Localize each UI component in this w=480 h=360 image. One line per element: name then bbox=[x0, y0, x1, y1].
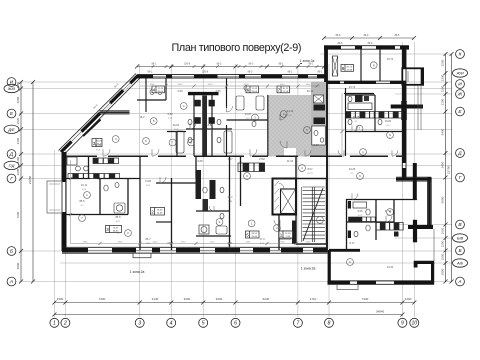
right step at A-B axis bbox=[414, 261, 418, 268]
svg-text:12.86: 12.86 bbox=[95, 143, 102, 147]
apartment flag 5 bbox=[246, 231, 260, 238]
svg-text:86-3: 86-3 bbox=[217, 62, 222, 65]
right balcony thin lines upper bbox=[420, 85, 422, 130]
svg-text:И: И bbox=[458, 82, 462, 88]
exterior wall top-right block top bbox=[324, 45, 409, 47]
svg-text:3250: 3250 bbox=[208, 84, 214, 86]
svg-text:Б: Б bbox=[458, 248, 461, 254]
svg-text:44.1: 44.1 bbox=[107, 157, 113, 161]
svg-text:З.88: З.88 bbox=[207, 123, 213, 127]
apartment flag 3 diagonal room bbox=[92, 139, 102, 147]
svg-text:5.83: 5.83 bbox=[167, 112, 173, 116]
white door gap in gray room bbox=[284, 148, 296, 157]
right lower bath wall black chunks bbox=[348, 201, 351, 209]
kitchen long row right apartment hall bbox=[346, 112, 403, 119]
svg-text:16.2: 16.2 bbox=[139, 115, 145, 119]
svg-text:А/Б: А/Б bbox=[456, 262, 464, 266]
svg-text:9.65: 9.65 bbox=[357, 209, 363, 213]
right lower tub bbox=[353, 202, 367, 208]
svg-text:Д/Е: Д/Е bbox=[7, 128, 15, 132]
svg-text:1850: 1850 bbox=[441, 268, 445, 275]
svg-text:85.5: 85.5 bbox=[79, 199, 85, 203]
bath fixtures flanking central shaft bbox=[176, 119, 232, 153]
right dimension column 1 bbox=[445, 54, 447, 282]
svg-text:2100: 2100 bbox=[441, 98, 445, 105]
svg-text:86.7: 86.7 bbox=[145, 237, 151, 241]
svg-text:74.83: 74.83 bbox=[145, 179, 152, 183]
svg-text:1250: 1250 bbox=[441, 240, 445, 247]
svg-text:З.88: З.88 bbox=[228, 201, 233, 203]
inner diagonal wall segment bbox=[83, 120, 101, 137]
vent side blocks upper left bbox=[195, 100, 201, 107]
exterior wall top of center block bbox=[137, 74, 328, 76]
right dimension column 2 bbox=[451, 54, 453, 282]
dark box in bottom-right kitchen bbox=[394, 232, 399, 237]
svg-text:7-34: 7-34 bbox=[286, 236, 291, 238]
svg-text:86-9: 86-9 bbox=[364, 34, 369, 37]
svg-text:16.81: 16.81 bbox=[385, 119, 392, 123]
interior dimension chain left wall bbox=[70, 160, 72, 243]
bottom dimension line row 2 overall bbox=[54, 314, 402, 316]
washer box lower core bbox=[199, 225, 209, 234]
svg-text:5400: 5400 bbox=[441, 128, 445, 135]
kitchen row center-bottom apartment bbox=[238, 163, 265, 172]
bottom extension top wall bbox=[329, 249, 360, 252]
svg-text:6240: 6240 bbox=[263, 297, 270, 301]
svg-text:17-19: 17-19 bbox=[282, 91, 288, 93]
svg-text:85.5: 85.5 bbox=[115, 215, 121, 219]
svg-text:Ж/И: Ж/И bbox=[455, 72, 464, 76]
svg-text:9.65: 9.65 bbox=[197, 159, 203, 163]
svg-text:36-32: 36-32 bbox=[282, 88, 288, 90]
window sills top center bbox=[153, 75, 317, 77]
gray shaded corridor room fill bbox=[268, 95, 327, 157]
svg-text:12-88: 12-88 bbox=[346, 70, 352, 72]
svg-text:11.62: 11.62 bbox=[287, 159, 294, 163]
svg-text:Б/В: Б/В bbox=[457, 237, 464, 241]
svg-text:27.59: 27.59 bbox=[385, 209, 392, 213]
bath fixtures top-left apartment bbox=[150, 85, 264, 126]
right exterior wall lower bbox=[427, 177, 429, 229]
apartment flag 2 bbox=[151, 208, 165, 216]
svg-text:Ж/И: Ж/И bbox=[7, 87, 16, 91]
svg-text:15.72: 15.72 bbox=[307, 173, 313, 175]
central vent shaft cap wall bbox=[188, 92, 219, 95]
svg-text:33-05: 33-05 bbox=[251, 91, 257, 93]
svg-text:3140: 3140 bbox=[152, 297, 159, 301]
svg-text:1500: 1500 bbox=[441, 253, 445, 260]
mid horizontal wall at Д axis bbox=[66, 155, 406, 157]
svg-text:4.07: 4.07 bbox=[227, 157, 233, 161]
svg-text:Г: Г bbox=[459, 175, 462, 181]
svg-text:10: 10 bbox=[412, 321, 418, 327]
svg-text:4: 4 bbox=[170, 321, 173, 327]
main structural wall x327 bbox=[326, 49, 328, 156]
door swing arcs bbox=[103, 106, 398, 226]
lower vent middle column bbox=[203, 199, 209, 211]
svg-text:7200: 7200 bbox=[16, 211, 20, 218]
main structural wall x327 lower bbox=[326, 156, 328, 250]
svg-text:3200: 3200 bbox=[184, 297, 191, 301]
apartment flag 8 bbox=[341, 65, 354, 72]
axis grid lines bbox=[19, 42, 452, 317]
left exterior wall bbox=[61, 152, 63, 251]
kitchen row upper-left apartment bbox=[93, 158, 119, 164]
right pier cross at E axis bbox=[391, 105, 423, 109]
svg-text:План типового поверху(2-9): План типового поверху(2-9) bbox=[172, 42, 302, 54]
svg-text:86-1: 86-1 bbox=[288, 70, 293, 73]
kitchen row bottom-right apartment bbox=[376, 223, 403, 231]
right exterior wall at Г axis bbox=[396, 176, 431, 178]
svg-text:3210: 3210 bbox=[210, 241, 216, 243]
vent side blocks lower right bbox=[209, 117, 215, 124]
bottom extension left wall bbox=[328, 250, 331, 284]
central vent shaft column bbox=[202, 96, 207, 156]
right bay window protrusion bbox=[402, 68, 423, 85]
svg-text:105-8: 105-8 bbox=[184, 62, 191, 65]
white bath box inside gray strip bbox=[312, 126, 326, 145]
bottom extension bottom wall bbox=[328, 280, 435, 282]
svg-text:86-9: 86-9 bbox=[368, 42, 373, 45]
apartment flag 1 bbox=[279, 231, 293, 238]
left dimension column 1 bbox=[20, 82, 22, 282]
svg-text:1 зона 2а: 1 зона 2а bbox=[130, 270, 145, 274]
ventilation X-box top-right block bbox=[332, 56, 337, 76]
staircase stringer bbox=[311, 187, 313, 242]
svg-text:Б: Б bbox=[10, 249, 13, 255]
apartment flag 7 bbox=[277, 86, 290, 93]
diagonal window gaps bbox=[72, 83, 131, 142]
svg-text:2.17: 2.17 bbox=[313, 143, 319, 147]
svg-text:2740: 2740 bbox=[228, 247, 234, 249]
left balcony outline bbox=[47, 181, 62, 213]
staircase treads bbox=[303, 187, 326, 239]
svg-text:14.7: 14.7 bbox=[227, 195, 233, 199]
right wall mid pier bbox=[413, 163, 417, 200]
svg-text:1200: 1200 bbox=[441, 85, 445, 92]
svg-text:3040: 3040 bbox=[153, 241, 159, 243]
svg-text:3230: 3230 bbox=[216, 297, 223, 301]
svg-text:86-3: 86-3 bbox=[248, 70, 253, 73]
stairwell walls bbox=[295, 156, 297, 244]
svg-text:74-95: 74-95 bbox=[285, 233, 291, 235]
svg-text:10.25: 10.25 bbox=[349, 167, 356, 171]
right lower vent cell row bbox=[349, 217, 376, 222]
bath fixtures lower-left apartment bbox=[104, 182, 125, 213]
axis circles left bbox=[7, 78, 16, 87]
svg-text:33-05: 33-05 bbox=[157, 91, 163, 93]
svg-text:86-1: 86-1 bbox=[148, 70, 153, 73]
right exterior wall upper bbox=[401, 46, 403, 178]
svg-text:23950: 23950 bbox=[28, 175, 32, 184]
svg-text:6: 6 bbox=[234, 321, 237, 327]
black duct below elevator bbox=[292, 221, 297, 245]
svg-text:5600: 5600 bbox=[441, 196, 445, 203]
svg-text:2: 2 bbox=[63, 321, 67, 327]
lower vent bar right bbox=[210, 180, 216, 199]
svg-text:А: А bbox=[457, 279, 461, 285]
svg-text:2980: 2980 bbox=[146, 243, 152, 245]
svg-text:3040: 3040 bbox=[150, 84, 156, 86]
svg-text:2980: 2980 bbox=[83, 241, 89, 243]
interior dimension chain below top wall bbox=[140, 85, 320, 87]
svg-text:1 зона 2а: 1 зона 2а bbox=[300, 59, 315, 63]
svg-text:2.55: 2.55 bbox=[215, 89, 221, 93]
svg-text:3360: 3360 bbox=[118, 241, 124, 243]
svg-text:7: 7 bbox=[297, 321, 300, 327]
apartment flag 4 bbox=[152, 86, 165, 93]
kitchen fixtures left bbox=[76, 166, 81, 171]
svg-text:25-72: 25-72 bbox=[346, 67, 352, 69]
top dimension line center block bbox=[137, 66, 324, 68]
svg-text:86-8: 86-8 bbox=[338, 42, 343, 45]
svg-text:17.3: 17.3 bbox=[259, 237, 265, 241]
gray darker strip right of corridor bbox=[311, 82, 327, 157]
bottom dimension line row 1 bbox=[54, 302, 414, 304]
svg-text:1300: 1300 bbox=[441, 74, 445, 81]
svg-text:Д: Д bbox=[457, 151, 462, 157]
black vent blocks in gray strip bbox=[314, 105, 326, 111]
svg-text:23-44: 23-44 bbox=[251, 236, 257, 238]
vent side blocks lower left bbox=[195, 117, 201, 124]
svg-text:Д: Д bbox=[9, 152, 14, 158]
right balcony glazing lower bbox=[433, 229, 435, 261]
left dimension column 2 bbox=[32, 82, 34, 282]
axis circles bottom bbox=[50, 318, 59, 327]
bath fixtures lower core bbox=[203, 187, 227, 234]
svg-text:20.87: 20.87 bbox=[245, 112, 252, 116]
svg-text:10.28: 10.28 bbox=[353, 115, 360, 119]
white vent box inside gray strip bbox=[314, 95, 324, 103]
svg-text:10.11: 10.11 bbox=[81, 183, 88, 187]
svg-text:2762: 2762 bbox=[259, 157, 265, 161]
top-right block left wall bbox=[324, 46, 327, 82]
bath fixtures gray strip bbox=[314, 130, 324, 142]
svg-text:2280: 2280 bbox=[306, 241, 312, 243]
svg-text:86-8: 86-8 bbox=[336, 34, 341, 37]
svg-text:3: 3 bbox=[138, 321, 141, 327]
extra room label texts bbox=[80, 115, 392, 249]
svg-text:1 зона 2а: 1 зона 2а bbox=[301, 267, 316, 271]
svg-text:86-1: 86-1 bbox=[318, 70, 323, 73]
svg-text:Г: Г bbox=[10, 176, 13, 182]
svg-text:74-43: 74-43 bbox=[251, 88, 257, 90]
svg-text:8: 8 bbox=[328, 321, 331, 327]
svg-text:34840: 34840 bbox=[376, 309, 385, 313]
svg-text:9: 9 bbox=[401, 321, 404, 327]
bottom exterior wall bbox=[62, 246, 328, 248]
kitchen row lower-left apartment bbox=[68, 174, 120, 179]
corridor wall above core bbox=[272, 178, 327, 180]
washer boxes below elevator bbox=[279, 231, 291, 239]
right apartment vent block bbox=[355, 96, 363, 103]
svg-text:Ж: Ж bbox=[457, 92, 463, 98]
svg-text:А: А bbox=[9, 279, 13, 285]
diagonal exterior wall bbox=[61, 76, 138, 153]
svg-text:74-41: 74-41 bbox=[113, 228, 119, 230]
svg-text:4200: 4200 bbox=[16, 96, 20, 103]
svg-text:2200: 2200 bbox=[441, 59, 445, 66]
axis circles right bbox=[456, 50, 465, 59]
bottom wall window sills bbox=[88, 249, 313, 251]
staircase diagonal cut line bbox=[303, 188, 323, 241]
inner horizontal wall band of diagonal room bbox=[100, 110, 130, 112]
svg-text:3580: 3580 bbox=[246, 241, 252, 243]
right lower toilets bbox=[366, 209, 370, 215]
horizontal tub right apartment bbox=[348, 103, 372, 110]
vent side blocks upper right bbox=[209, 100, 215, 107]
wall below top-right block upper room bbox=[328, 80, 407, 82]
svg-text:8.07: 8.07 bbox=[307, 167, 313, 171]
upper vertical partition walls bbox=[146, 49, 380, 156]
svg-text:74-43: 74-43 bbox=[157, 88, 163, 90]
svg-text:1: 1 bbox=[53, 321, 56, 327]
svg-text:За.81: За.81 bbox=[173, 123, 180, 127]
svg-text:2620: 2620 bbox=[16, 117, 20, 124]
svg-text:2740: 2740 bbox=[280, 241, 286, 243]
svg-text:1900: 1900 bbox=[306, 84, 312, 86]
svg-text:86-5: 86-5 bbox=[395, 34, 400, 37]
room number circles bbox=[79, 62, 394, 266]
svg-text:8.17: 8.17 bbox=[349, 241, 355, 245]
svg-text:1530: 1530 bbox=[57, 297, 64, 301]
vestibule door arc bbox=[279, 184, 284, 189]
svg-text:5: 5 bbox=[202, 321, 205, 327]
svg-text:28-52: 28-52 bbox=[251, 233, 257, 235]
svg-text:7330: 7330 bbox=[362, 297, 369, 301]
svg-text:4000: 4000 bbox=[16, 262, 20, 269]
ticks on top chain at window boundaries bbox=[152, 65, 319, 68]
svg-text:ЗЗ.9: ЗЗ.9 bbox=[96, 150, 101, 152]
svg-text:1710: 1710 bbox=[310, 297, 317, 301]
svg-text:14.43: 14.43 bbox=[287, 109, 294, 113]
svg-text:86-3: 86-3 bbox=[249, 62, 254, 65]
interior dimension chain above bottom wall bbox=[70, 243, 320, 245]
svg-text:24.30: 24.30 bbox=[387, 265, 394, 269]
elevator side shaft hatch bbox=[275, 181, 280, 210]
elevator shaft outer walls bbox=[273, 179, 297, 215]
upper horizontal partition walls bbox=[137, 94, 402, 132]
svg-text:74-40: 74-40 bbox=[157, 210, 163, 212]
elevator cabin with cross bbox=[281, 189, 296, 214]
right pier cross at B axis bbox=[408, 225, 433, 229]
balcony outline below extension bbox=[337, 285, 358, 290]
svg-text:2.55: 2.55 bbox=[177, 89, 183, 93]
room area labels bbox=[79, 57, 393, 269]
svg-text:86-1: 86-1 bbox=[152, 62, 157, 65]
svg-text:22750: 22750 bbox=[447, 165, 451, 174]
top dimension texts center bbox=[148, 62, 323, 73]
svg-text:2330: 2330 bbox=[181, 241, 187, 243]
svg-text:1200: 1200 bbox=[405, 297, 412, 301]
svg-text:2450: 2450 bbox=[441, 161, 445, 168]
svg-text:3160: 3160 bbox=[16, 137, 20, 144]
svg-text:36.32: 36.32 bbox=[307, 89, 314, 93]
svg-text:3040: 3040 bbox=[280, 84, 286, 86]
lower vent bar left bbox=[196, 170, 202, 199]
svg-text:15.72: 15.72 bbox=[387, 57, 394, 61]
svg-text:2200: 2200 bbox=[16, 168, 20, 175]
apartment flag 6 bbox=[246, 86, 259, 93]
bath fixtures right apartments bbox=[346, 96, 382, 237]
lower horizontal partition walls bbox=[66, 179, 417, 237]
svg-text:Г/Д: Г/Д bbox=[9, 164, 15, 168]
svg-text:34-89: 34-89 bbox=[157, 213, 163, 215]
svg-text:4100: 4100 bbox=[244, 84, 250, 86]
top dimension line right block bbox=[324, 37, 414, 39]
svg-text:7200: 7200 bbox=[99, 297, 106, 301]
interior dimension chain right apartment bbox=[341, 93, 343, 155]
svg-text:105-8: 105-8 bbox=[202, 70, 209, 73]
bottom balcony step bbox=[133, 253, 151, 258]
svg-text:86-1: 86-1 bbox=[279, 62, 284, 65]
svg-text:1620: 1620 bbox=[441, 227, 445, 234]
apartment flag 3 lower-left bbox=[106, 226, 122, 233]
svg-text:2820: 2820 bbox=[178, 84, 184, 86]
lower vertical partition walls bbox=[89, 156, 395, 250]
svg-text:25.72: 25.72 bbox=[349, 85, 356, 89]
svg-text:33-91: 33-91 bbox=[96, 141, 102, 143]
